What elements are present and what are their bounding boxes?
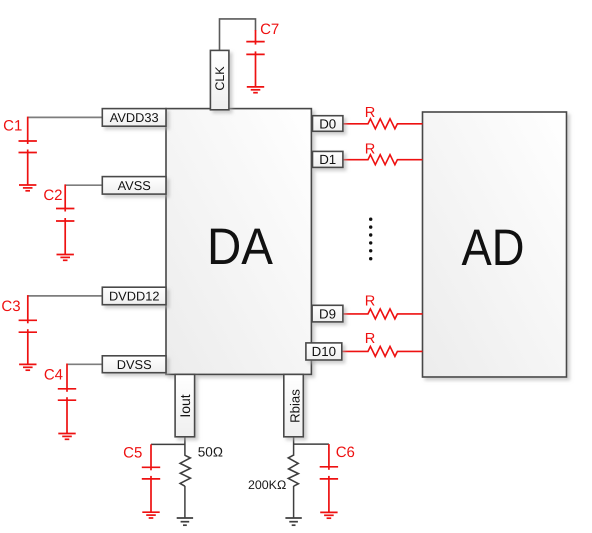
wire CLK to C7 (220, 19, 256, 51)
svg-text:DVDD12: DVDD12 (109, 289, 160, 304)
ground below 50 ohm resistor (177, 518, 193, 525)
pin DVSS (102, 356, 166, 373)
svg-text:R: R (365, 105, 376, 121)
svg-text:C3: C3 (1, 298, 20, 315)
wire Iout stem (184, 437, 186, 456)
pin DVDD12 (102, 287, 166, 305)
svg-text:200KΩ: 200KΩ (248, 478, 286, 492)
ground of C2 (57, 255, 74, 261)
ground of C3 (19, 364, 36, 370)
capacitor C2 (56, 184, 74, 254)
wire DVDD12 to C3 (28, 295, 103, 297)
resistor R at D9 (343, 309, 423, 319)
resistor R at D1 (343, 155, 423, 165)
capacitor C6 (320, 444, 338, 512)
pin D1 (313, 151, 343, 167)
wire junction branch to C6 (294, 443, 329, 445)
svg-text:C6: C6 (336, 444, 355, 461)
capacitor C3 (19, 295, 37, 364)
svg-text:DA: DA (207, 217, 274, 275)
svg-text:C1: C1 (3, 118, 22, 135)
pin D10 (306, 343, 342, 360)
svg-text:DVSS: DVSS (117, 357, 152, 372)
svg-text:C7: C7 (260, 21, 279, 38)
ground of C5 (142, 512, 159, 518)
svg-text:D10: D10 (312, 344, 336, 359)
svg-text:R: R (365, 141, 376, 157)
svg-text:D9: D9 (319, 307, 336, 322)
wire AVDD33 to C1 (28, 116, 103, 118)
wire Rbias stem (293, 437, 295, 456)
svg-text:AD: AD (462, 218, 525, 276)
IC U2 AD box (423, 112, 567, 377)
resistor 200K ohm (288, 455, 298, 486)
svg-text:AVDD33: AVDD33 (110, 110, 159, 125)
capacitor C5 (142, 444, 160, 512)
node ellipsis between D1 and D9 (369, 218, 372, 261)
svg-text:R: R (365, 331, 376, 347)
resistor 50 ohm (180, 455, 190, 486)
ground of C7 (247, 87, 264, 93)
svg-text:D1: D1 (319, 152, 336, 167)
wire 50ohm resistor to ground (184, 486, 186, 518)
svg-text:C2: C2 (43, 187, 62, 204)
svg-text:50Ω: 50Ω (198, 445, 223, 460)
pin Rbias (284, 374, 304, 436)
pin AVSS (102, 177, 166, 195)
resistor R at D0 (343, 119, 423, 129)
ground of C4 (58, 434, 75, 440)
ground of C1 (19, 185, 36, 191)
wire AVSS to C2 (65, 184, 102, 186)
svg-text:C5: C5 (123, 444, 142, 461)
wire 200Kohm resistor to ground (293, 486, 295, 518)
ground of C6 (320, 512, 337, 518)
svg-text:Rbias: Rbias (287, 389, 302, 423)
ground below 200K ohm resistor (285, 518, 301, 525)
svg-text:C4: C4 (44, 367, 63, 384)
svg-text:Iout: Iout (177, 394, 193, 417)
pin AVDD33 (102, 109, 166, 127)
resistor R at D10 (342, 346, 423, 356)
IC U1 DA box (166, 109, 311, 375)
pin CLK (210, 50, 229, 109)
svg-text:CLK: CLK (213, 66, 227, 91)
wire DVSS to C4 (67, 363, 102, 365)
capacitor C4 (58, 364, 76, 434)
pin Iout (175, 374, 195, 436)
capacitor C7 (246, 30, 264, 87)
wire junction branch to C5 (151, 443, 185, 445)
pin D9 (312, 305, 343, 322)
svg-text:AVSS: AVSS (118, 178, 151, 193)
pin D0 (313, 116, 343, 132)
capacitor C1 (19, 117, 37, 185)
svg-text:R: R (365, 293, 376, 309)
svg-text:D0: D0 (319, 116, 336, 131)
